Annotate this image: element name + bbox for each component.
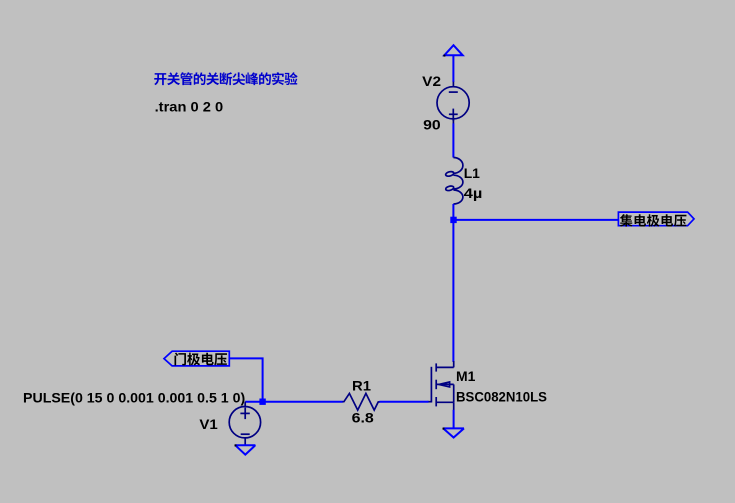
wire node to output flag <box>454 219 619 221</box>
voltage source V2 <box>437 82 469 124</box>
schematic title comment <box>154 72 297 85</box>
svg-text:BSC082N10LS: BSC082N10LS <box>456 389 547 405</box>
wire source to ground <box>453 410 455 429</box>
resistor R1 <box>343 393 380 410</box>
svg-text:90: 90 <box>423 116 441 132</box>
ground (V1) <box>235 445 255 454</box>
wire flag to corner <box>229 358 262 401</box>
svg-text:PULSE(0 15 0 0.001 0.001 0.5 1: PULSE(0 15 0 0.001 0.001 0.5 1 0) <box>23 389 245 405</box>
ground (M1 source) <box>443 428 464 437</box>
node junction (drain net) <box>450 217 456 223</box>
power net flag (up arrow) <box>444 45 462 55</box>
svg-text:4µ: 4µ <box>464 185 483 201</box>
svg-text:R1: R1 <box>352 377 371 393</box>
node junction (gate net) <box>259 399 265 405</box>
inductor L1 <box>445 158 463 205</box>
svg-text:V1: V1 <box>199 416 218 432</box>
net flag 集电极电压 (collector voltage) <box>618 212 694 226</box>
svg-text:L1: L1 <box>464 165 480 181</box>
wire V2 to L1 <box>452 123 454 157</box>
voltage source V1 <box>229 402 260 446</box>
net flag 门极电压 (gate voltage) <box>164 351 229 366</box>
svg-text:6.8: 6.8 <box>352 410 374 426</box>
wire junction to R1 <box>263 401 343 403</box>
wire junction to V1 <box>245 401 262 403</box>
nmos transistor M1 <box>428 361 454 410</box>
svg-text:V2: V2 <box>422 73 441 89</box>
svg-text:.tran 0 2 0: .tran 0 2 0 <box>155 98 224 114</box>
wire L1 to drain node <box>452 204 454 362</box>
wire arrow to V2 <box>452 55 454 82</box>
svg-text:M1: M1 <box>456 368 476 384</box>
wire R1 to gate <box>379 401 428 403</box>
